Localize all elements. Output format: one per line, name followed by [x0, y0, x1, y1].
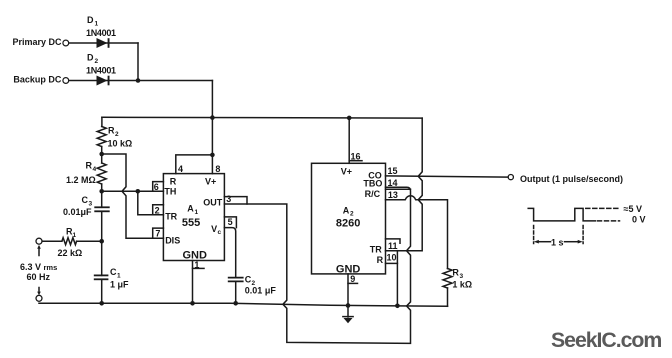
svg-text:2: 2: [95, 58, 99, 65]
svg-text:DIS: DIS: [165, 235, 180, 245]
svg-text:1: 1: [73, 232, 77, 239]
svg-text:9: 9: [350, 274, 355, 284]
svg-text:Backup DC: Backup DC: [13, 75, 62, 85]
svg-text:0.01 μF: 0.01 μF: [245, 286, 277, 296]
svg-text:555: 555: [182, 217, 200, 229]
svg-text:1 μF: 1 μF: [110, 280, 129, 290]
svg-text:V: V: [211, 224, 217, 234]
svg-text:D: D: [87, 53, 94, 63]
svg-text:14: 14: [388, 178, 398, 188]
svg-text:60 Hz: 60 Hz: [27, 272, 51, 282]
svg-text:C: C: [82, 195, 89, 205]
svg-text:TH: TH: [164, 187, 176, 197]
svg-text:TR: TR: [370, 245, 382, 255]
svg-text:8: 8: [215, 164, 220, 174]
svg-text:R/C: R/C: [365, 189, 381, 199]
svg-text:0 V: 0 V: [632, 215, 646, 225]
svg-text:1: 1: [117, 273, 121, 280]
svg-text:16: 16: [351, 152, 361, 162]
svg-text:1: 1: [194, 260, 199, 270]
svg-text:4: 4: [178, 164, 183, 174]
svg-text:V+: V+: [205, 176, 216, 186]
svg-text:10 kΩ: 10 kΩ: [108, 139, 133, 149]
svg-text:Primary DC: Primary DC: [13, 37, 63, 47]
svg-text:1N4001: 1N4001: [86, 66, 116, 76]
svg-text:TR: TR: [165, 211, 177, 221]
svg-text:OUT: OUT: [203, 197, 223, 207]
svg-text:11: 11: [388, 241, 398, 251]
svg-text:15: 15: [388, 166, 398, 176]
svg-text:A: A: [187, 204, 194, 214]
svg-text:R: R: [108, 126, 115, 136]
svg-text:SeekIC.com: SeekIC.com: [551, 328, 661, 352]
svg-text:C: C: [110, 267, 117, 277]
svg-text:5: 5: [228, 217, 233, 227]
svg-text:8260: 8260: [336, 218, 360, 230]
svg-text:10: 10: [387, 252, 397, 262]
svg-text:1.2 MΩ: 1.2 MΩ: [66, 175, 96, 185]
svg-text:1: 1: [95, 21, 99, 28]
svg-text:GND: GND: [336, 263, 361, 275]
svg-text:1: 1: [195, 209, 199, 216]
svg-text:R: R: [170, 176, 177, 186]
svg-text:1 s: 1 s: [551, 238, 564, 248]
svg-text:4: 4: [93, 166, 97, 173]
svg-text:22 kΩ: 22 kΩ: [58, 248, 83, 258]
svg-text:Output (1 pulse/second): Output (1 pulse/second): [520, 174, 623, 184]
svg-text:0.01μF: 0.01μF: [63, 207, 92, 217]
svg-text:1 kΩ: 1 kΩ: [452, 280, 472, 290]
svg-text:2: 2: [115, 131, 119, 138]
svg-text:1N4001: 1N4001: [86, 28, 116, 38]
svg-text:2: 2: [350, 211, 354, 218]
svg-text:V+: V+: [341, 167, 352, 177]
svg-text:≈5 V: ≈5 V: [624, 204, 642, 214]
svg-text:7: 7: [155, 229, 160, 239]
svg-text:R: R: [86, 161, 93, 171]
svg-text:TBO: TBO: [363, 179, 382, 189]
svg-text:2: 2: [155, 205, 160, 215]
svg-text:13: 13: [388, 190, 398, 200]
svg-text:6.3 V rms: 6.3 V rms: [20, 262, 57, 272]
svg-text:R: R: [377, 255, 384, 265]
svg-text:D: D: [87, 15, 94, 25]
svg-text:A: A: [343, 206, 350, 216]
svg-text:6: 6: [154, 182, 159, 192]
svg-text:R: R: [452, 268, 459, 278]
svg-text:c: c: [218, 229, 222, 236]
svg-text:3: 3: [226, 194, 231, 204]
